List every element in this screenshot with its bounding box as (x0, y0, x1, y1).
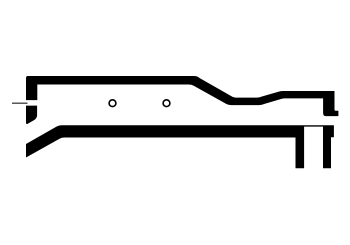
rivet hole circle 2 (163, 100, 170, 107)
lower-left fang of upper profile (below break) (26, 106, 37, 124)
datum tick line at left (12, 102, 28, 104)
rivet hole circle 1 (109, 100, 116, 107)
upper rail profile (top piece) (26, 76, 338, 116)
lower mounting profile (bottom piece) (26, 125, 334, 168)
